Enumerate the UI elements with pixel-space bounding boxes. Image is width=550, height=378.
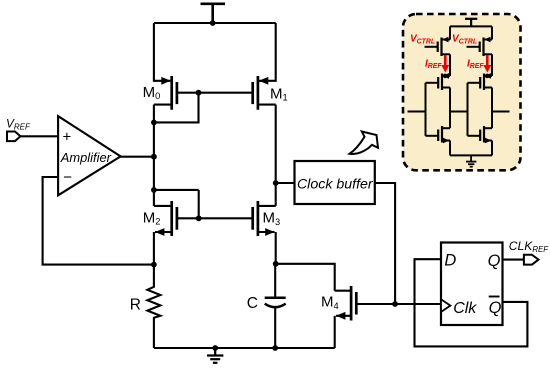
resistor R (147, 265, 160, 348)
clock buffer box (295, 161, 375, 204)
svg-text:C: C (247, 295, 258, 312)
wire M0 source drop (154, 23, 172, 81)
port VREF (7, 132, 20, 142)
wire M1 source drop (258, 23, 276, 81)
inset wire top rail (450, 25, 492, 27)
inset wire left branch mid (449, 88, 451, 129)
node C bottom (272, 345, 278, 351)
node M2 drain (151, 187, 157, 193)
node M0-M1 gate junction (196, 90, 202, 96)
flip-flop U2 (441, 243, 503, 326)
node clock net junction (392, 301, 398, 307)
node supply-rail junction (210, 20, 216, 26)
svg-text:−: − (63, 169, 72, 186)
node M0 drain junction (151, 120, 157, 126)
wire gate-to-drain diode connection M0 (154, 93, 199, 123)
wire C node to M4 drain (276, 264, 335, 291)
port CLKREF (524, 255, 539, 265)
inset wire left branch upper (449, 54, 451, 76)
inset wire bottom rail (450, 154, 492, 156)
wire to clock buffer (276, 182, 295, 184)
svg-text:Q: Q (489, 299, 502, 317)
node IREF right (485, 74, 490, 79)
node C top (273, 261, 279, 267)
svg-text:Clock buffer: Clock buffer (297, 176, 374, 192)
wire M1 gate (199, 92, 253, 94)
inset wire right branch upper (491, 54, 493, 76)
svg-text:Clk: Clk (453, 300, 477, 317)
wire M2 source to R node (153, 232, 155, 265)
wire VREF to amplifier (20, 135, 58, 137)
current arrow IREF right (483, 55, 491, 73)
transistor M0 (154, 76, 177, 110)
inset ground (466, 155, 476, 166)
inset wire left gate bus (425, 83, 427, 136)
inset transistor N1 (left inverter nmos) (426, 126, 451, 143)
inset wire cross coupling (450, 111, 468, 113)
wire clock buffer output (375, 183, 395, 304)
svg-text:Amplifier: Amplifier (60, 150, 112, 165)
wire top rail (154, 22, 276, 24)
wire M2 drain tap (154, 189, 199, 191)
inset transistor P1 (VCTRL left) (425, 26, 451, 56)
op-amp U1 Amplifier (58, 116, 121, 195)
arrow to inset (350, 132, 379, 155)
node ground tap (212, 345, 218, 351)
supply symbol VDD (201, 4, 226, 23)
wire M0 gate (177, 92, 199, 94)
node amplifier output (151, 154, 157, 160)
wire Q output (503, 259, 524, 261)
capacitor C (265, 264, 286, 348)
inset transistor P2 (left inverter pmos) (426, 73, 451, 90)
wire M2 gate (177, 217, 199, 219)
inset wire left input stub (408, 111, 426, 113)
svg-text:+: + (63, 129, 72, 146)
wire M3 gate (199, 217, 253, 219)
inset wire right branch mid (491, 88, 493, 129)
inset wire right gate bus (467, 83, 469, 136)
wire M4 gate / Clk net (356, 303, 441, 305)
wire M1 drain down to M3 (275, 105, 277, 206)
wire M3 source to C node (275, 232, 277, 264)
wire Qbar feedback to D (415, 259, 528, 346)
node clock buffer tap (273, 180, 279, 186)
ground (207, 348, 223, 363)
wire bottom rail (154, 347, 335, 349)
node R top (151, 262, 157, 268)
wire feedback to amplifier inverting input (43, 177, 154, 265)
svg-text:R: R (130, 297, 141, 314)
inset transistor P4 (right inverter pmos) (468, 73, 493, 90)
wire amplifier output (121, 156, 154, 158)
transistor M2 (154, 201, 177, 236)
transistor M1 (253, 76, 276, 110)
inset transistor N2 (right inverter nmos) (468, 126, 493, 143)
current arrow IREF left (441, 55, 449, 73)
inset wire right branch lower (491, 141, 493, 156)
inset box (oscillator detail) (403, 14, 521, 170)
svg-text:Q: Q (488, 252, 501, 270)
svg-text:D: D (444, 252, 456, 270)
wire M0 drain down to M2 (153, 105, 155, 206)
transistor M4 (335, 286, 357, 348)
node M2-M3 gate junction (196, 215, 202, 221)
inset wire right output stub (492, 111, 510, 113)
inset supply symbol (465, 19, 477, 27)
node IREF left (443, 74, 448, 79)
inset transistor P3 (VCTRL right) (467, 26, 493, 56)
transistor M3 (253, 201, 276, 236)
inset wire left branch lower (449, 141, 451, 156)
wire M2-M3 gate riser (198, 190, 200, 218)
